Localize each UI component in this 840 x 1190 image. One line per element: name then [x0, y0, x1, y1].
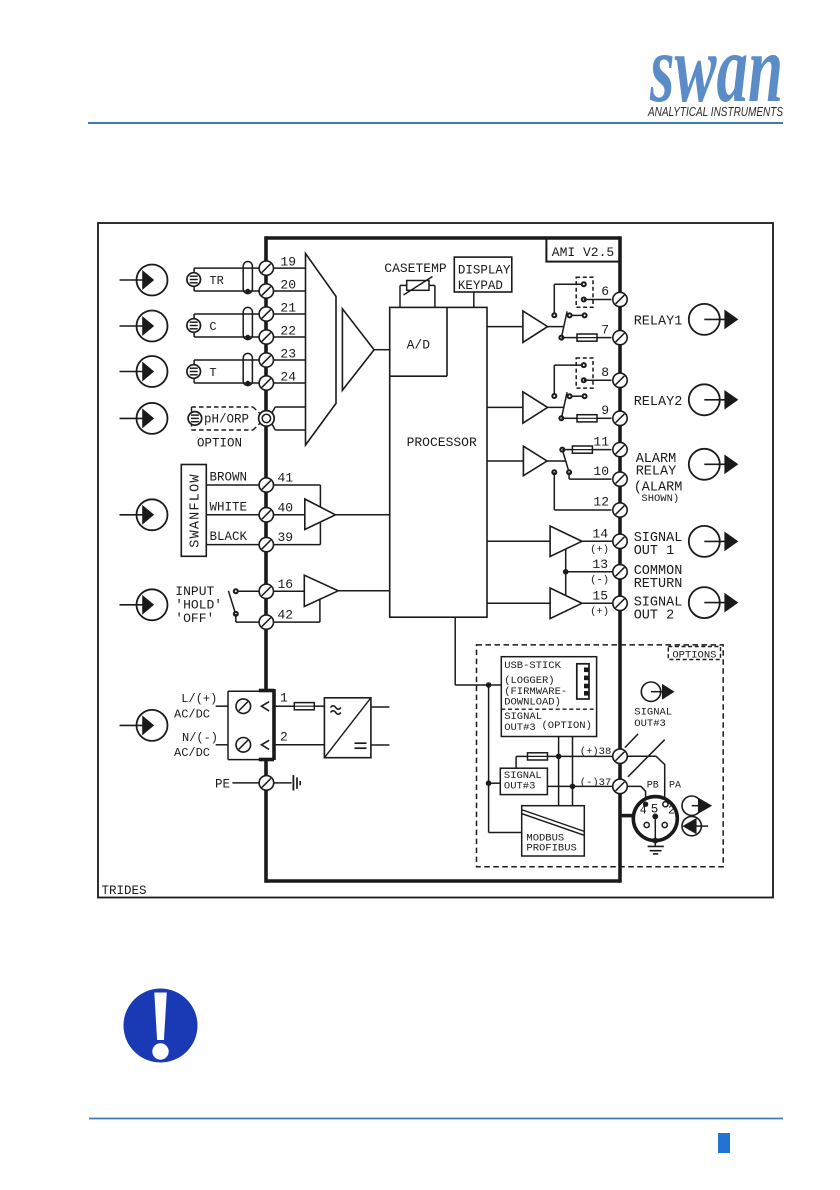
svg-text:2: 2	[280, 729, 288, 744]
svg-text:23: 23	[280, 346, 296, 361]
svg-text:RELAY: RELAY	[636, 465, 677, 480]
svg-text:8: 8	[601, 365, 609, 380]
svg-text:OUT#3: OUT#3	[634, 718, 666, 730]
svg-text:OUT#3: OUT#3	[504, 722, 536, 734]
svg-text:14: 14	[592, 527, 608, 542]
svg-text:TR: TR	[209, 274, 223, 288]
svg-text:13: 13	[592, 557, 608, 572]
svg-text:pH/ORP: pH/ORP	[204, 413, 249, 427]
svg-text:OUT 1: OUT 1	[634, 544, 675, 559]
svg-text:PB: PB	[647, 781, 659, 792]
svg-text:A/D: A/D	[407, 338, 431, 353]
svg-text:RETURN: RETURN	[634, 577, 683, 592]
svg-text:42: 42	[278, 608, 294, 623]
svg-text:AMI V2.5: AMI V2.5	[552, 245, 614, 260]
svg-text:L/(+): L/(+)	[181, 692, 217, 706]
svg-text:11: 11	[593, 434, 609, 449]
svg-text:2: 2	[668, 804, 675, 817]
svg-text:T: T	[209, 366, 216, 380]
svg-text:RELAY2: RELAY2	[634, 395, 683, 410]
svg-text:(-)37: (-)37	[580, 777, 612, 789]
svg-text:PROCESSOR: PROCESSOR	[407, 435, 477, 450]
svg-text:5: 5	[651, 803, 659, 817]
svg-text:10: 10	[593, 464, 609, 479]
svg-text:PROFIBUS: PROFIBUS	[526, 843, 576, 855]
svg-text:BROWN: BROWN	[210, 471, 248, 485]
svg-text:7: 7	[601, 322, 609, 337]
svg-text:22: 22	[280, 323, 296, 338]
svg-text:KEYPAD: KEYPAD	[458, 279, 503, 293]
svg-text:39: 39	[278, 530, 294, 545]
svg-text:CASETEMP: CASETEMP	[384, 261, 447, 276]
svg-text:TRIDES: TRIDES	[102, 884, 147, 898]
svg-text:AC/DC: AC/DC	[174, 746, 210, 760]
svg-text:(+): (+)	[590, 606, 609, 618]
svg-text:20: 20	[280, 277, 296, 292]
svg-text:USB-STICK: USB-STICK	[504, 660, 561, 672]
svg-text:SHOWN): SHOWN)	[641, 493, 679, 505]
svg-text:12: 12	[593, 495, 609, 510]
svg-text:PA: PA	[669, 781, 681, 792]
svg-text:BLACK: BLACK	[210, 530, 248, 544]
svg-text:WHITE: WHITE	[210, 500, 248, 514]
svg-text:15: 15	[592, 589, 608, 604]
svg-text:ANALYTICAL INSTRUMENTS: ANALYTICAL INSTRUMENTS	[647, 104, 783, 119]
svg-text:(OPTION): (OPTION)	[542, 720, 592, 732]
svg-text:(-): (-)	[590, 574, 609, 586]
svg-text:16: 16	[278, 577, 294, 592]
svg-text:N/(-): N/(-)	[182, 731, 218, 745]
svg-text:19: 19	[280, 255, 296, 270]
svg-text:1: 1	[280, 691, 288, 706]
svg-text:RELAY1: RELAY1	[634, 314, 683, 329]
svg-text:9: 9	[601, 403, 609, 418]
svg-text:PE: PE	[215, 778, 230, 792]
svg-text:SIGNAL: SIGNAL	[504, 711, 542, 723]
svg-text:'HOLD': 'HOLD'	[175, 597, 222, 612]
svg-text:SIGNAL: SIGNAL	[634, 706, 672, 718]
svg-text:40: 40	[278, 500, 294, 515]
svg-text:(+)38: (+)38	[580, 746, 612, 758]
svg-text:OUT 2: OUT 2	[634, 608, 675, 623]
svg-text:DOWNLOAD): DOWNLOAD)	[504, 696, 561, 708]
svg-text:21: 21	[280, 300, 296, 315]
svg-text:'OFF': 'OFF'	[175, 611, 214, 626]
svg-text:OUT#3: OUT#3	[504, 780, 536, 792]
svg-text:DISPLAY: DISPLAY	[458, 264, 511, 278]
svg-text:SWANFLOW: SWANFLOW	[189, 473, 204, 547]
svg-text:4: 4	[640, 804, 647, 817]
svg-text:41: 41	[278, 471, 294, 486]
svg-text:AC/DC: AC/DC	[174, 708, 210, 722]
svg-text:OPTIONS: OPTIONS	[672, 649, 716, 661]
svg-text:(+): (+)	[590, 544, 609, 556]
svg-text:C: C	[209, 320, 216, 334]
svg-text:6: 6	[601, 284, 609, 299]
svg-text:OPTION: OPTION	[197, 436, 242, 450]
svg-text:24: 24	[280, 369, 296, 384]
